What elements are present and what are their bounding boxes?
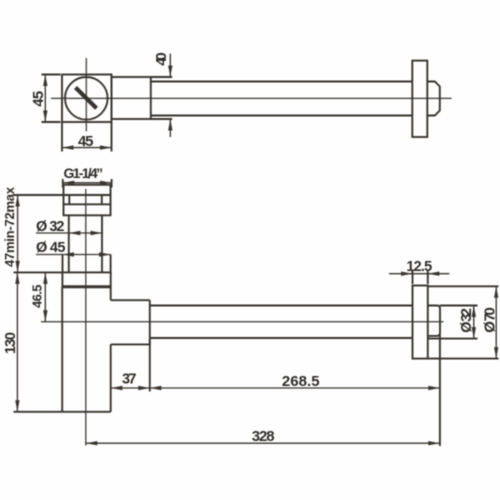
- pipe bottom edge (top view): [151, 115, 413, 117]
- outlet pipe bottom edge (bottom view): [150, 337, 413, 339]
- svg-text:45: 45: [30, 91, 47, 107]
- inlet nut (bottom view): [64, 185, 111, 216]
- dimension O45 arrows: [63, 252, 75, 256]
- svg-text:Ø 32: Ø 32: [459, 308, 475, 333]
- trap flange ring (bottom view): [62, 272, 110, 286]
- pipe end cap with chamfers (top view): [427, 82, 440, 116]
- extension of flange top to left dims: [14, 271, 63, 273]
- cup right wall lower: [110, 344, 112, 411]
- dimension O45 line: [36, 254, 111, 256]
- svg-text:Ø 45: Ø 45: [36, 240, 65, 256]
- dimension 268.5 arrows: [150, 386, 162, 390]
- svg-text:328: 328: [252, 428, 275, 445]
- dimension 47min-72max line: [17, 195, 19, 272]
- dimension 12.5 line: [389, 273, 450, 275]
- dimension O32 inlet leader/line: [36, 232, 102, 234]
- dimension O70 extensions: [428, 285, 499, 287]
- cup right wall upper: [110, 287, 112, 300]
- dimension 45 bottom extension lines: [61, 123, 63, 152]
- square flange body (top view): [62, 75, 112, 123]
- svg-text:47min-72max: 47min-72max: [2, 186, 17, 267]
- dimension 37 line: [111, 387, 150, 389]
- svg-text:130: 130: [3, 332, 19, 354]
- dimension 46.5 line: [44, 272, 46, 321]
- svg-text:G1-1/4”: G1-1/4”: [64, 165, 104, 181]
- dimension 45 bottom arrows: [62, 145, 74, 149]
- dimension 45 left extension lines: [42, 74, 61, 76]
- slot mark in circle: [76, 88, 97, 109]
- dimension O32 outlet line: [473, 306, 475, 339]
- svg-text:40: 40: [153, 52, 170, 66]
- wall flange (top view): [412, 61, 427, 137]
- cup left wall: [61, 287, 63, 412]
- dimension 45 left arrows: [43, 75, 47, 87]
- dimension 40 extension lines: [151, 76, 172, 78]
- dimension O45 extension lines: [62, 255, 64, 273]
- nut inner line / extension to 47-72 dim: [14, 194, 111, 196]
- svg-text:Ø 70: Ø 70: [482, 307, 499, 333]
- svg-text:Ø 32: Ø 32: [36, 219, 65, 235]
- dimension 268.5 line: [150, 387, 440, 389]
- dimension 12.5 arrows: [401, 272, 413, 276]
- dimension 40 arrow upper: [168, 66, 172, 78]
- extension line right (cap edge): [439, 335, 441, 447]
- dimension O32 outlet arrows: [472, 306, 476, 318]
- nut inner verticals: [68, 195, 70, 204]
- svg-text:46.5: 46.5: [30, 285, 45, 309]
- dimension O70 line: [495, 286, 497, 358]
- connector hub (top view): [112, 77, 151, 119]
- dimension O32 inlet arrows: [69, 231, 81, 235]
- dimension O32 outlet extensions: [440, 305, 478, 307]
- svg-text:268.5: 268.5: [282, 373, 320, 390]
- outlet pipe top edge (bottom view): [150, 305, 413, 307]
- nut inner line 2: [64, 203, 111, 205]
- inlet pipe walls (bottom view): [68, 215, 70, 272]
- dimension 40 line lower: [169, 119, 171, 137]
- inlet vertical centerline (bottom view): [85, 189, 87, 446]
- vertical centerline of circle: [85, 58, 87, 131]
- outlet pipe centerline: [41, 321, 444, 323]
- dimension 12.5 extensions: [412, 271, 414, 284]
- dimension 45 bottom line: [62, 147, 112, 149]
- dimension 130 line: [16, 272, 18, 411]
- svg-text:37: 37: [122, 372, 137, 388]
- outlet block right edge: [149, 300, 151, 344]
- dimension 328 line: [86, 442, 440, 444]
- horizontal centerline / pipe axis (top view): [51, 97, 452, 99]
- dimension 45 left line: [44, 75, 46, 123]
- dimension O70 arrows: [494, 286, 498, 298]
- outlet block top: [111, 299, 150, 301]
- wall flange (bottom view): [413, 286, 428, 359]
- dimension 40 line upper: [169, 54, 171, 77]
- dimension 37 extension: [149, 340, 151, 392]
- svg-text:12.5: 12.5: [406, 259, 432, 275]
- cup top thick line: [62, 286, 111, 289]
- G1-1/4 dimension line: [62, 179, 64, 188]
- pipe top edge (top view): [151, 81, 413, 83]
- cup bottom: [62, 411, 110, 413]
- cup bottom extension to left: [14, 411, 63, 413]
- dimension 40 arrow lower: [168, 119, 172, 131]
- svg-text:45: 45: [78, 133, 94, 150]
- outlet block bottom: [111, 343, 150, 345]
- dimension 328 arrows: [86, 441, 98, 445]
- dimension 37 arrows: [111, 386, 123, 390]
- pipe end cap (bottom view): [428, 306, 440, 336]
- circle (top view cap): [65, 77, 108, 120]
